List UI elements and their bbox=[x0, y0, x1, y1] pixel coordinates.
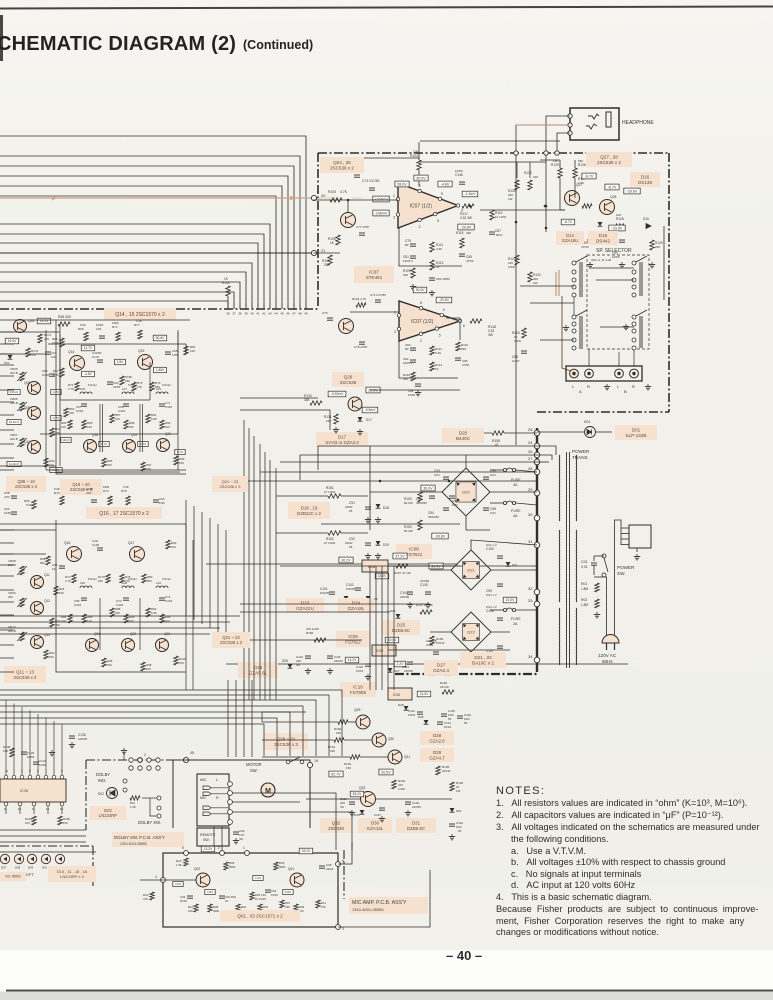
resistor R59 15K bbox=[44, 458, 48, 467]
op-amp U2 output bbox=[321, 523, 460, 525]
resistor R96 15K bbox=[102, 658, 106, 667]
PCB edge rail (thick) bbox=[536, 428, 538, 672]
svg-text:14: 14 bbox=[5, 769, 9, 773]
selector long horizontals bbox=[520, 285, 574, 287]
resistor R112 3.3K bbox=[430, 346, 434, 355]
svg-text:D09: D09 bbox=[28, 866, 34, 870]
voltage box 4.8V bbox=[82, 371, 95, 376]
node 5 micamp bbox=[184, 851, 189, 856]
transistor Q27 bbox=[565, 191, 580, 206]
diode D31 symbol bbox=[450, 808, 455, 812]
svg-text:DZB6.8C: DZB6.8C bbox=[392, 628, 410, 633]
resistor R106 1K bbox=[226, 286, 230, 296]
voltage box 19.2V q33 bbox=[37, 318, 51, 324]
svg-text:15K: 15K bbox=[49, 655, 54, 659]
svg-text:-29.8V: -29.8V bbox=[439, 298, 450, 302]
svg-text:POWER: POWER bbox=[572, 449, 590, 454]
svg-text:D18 , 19: D18 , 19 bbox=[301, 505, 318, 510]
resistor R91 6.8K bbox=[146, 414, 150, 423]
resistor R128 10K bbox=[614, 224, 624, 228]
svg-text:TRANS.: TRANS. bbox=[572, 455, 589, 460]
wires IC06 to dolby rows bbox=[0, 829, 86, 831]
svg-text:0.33 3W: 0.33 3W bbox=[460, 216, 472, 220]
svg-text:R69: R69 bbox=[78, 327, 84, 331]
svg-text:1.8M: 1.8M bbox=[581, 603, 588, 607]
ground C02 bbox=[235, 838, 237, 841]
svg-text:3W: 3W bbox=[488, 333, 493, 337]
svg-text:L09: L09 bbox=[156, 387, 161, 391]
svg-text:52.7V: 52.7V bbox=[331, 772, 341, 776]
resistor R07 33K bbox=[280, 900, 284, 908]
voltage box -29.0V bbox=[624, 188, 640, 194]
svg-text:21.0V: 21.0V bbox=[506, 598, 516, 602]
left edge wire stubs bbox=[0, 331, 14, 333]
transistor Q12 bbox=[31, 602, 44, 615]
svg-text:47: 47 bbox=[292, 312, 296, 316]
svg-text:1K: 1K bbox=[435, 367, 439, 371]
svg-text:DS442: DS442 bbox=[596, 239, 610, 244]
svg-text:25: 25 bbox=[349, 509, 353, 513]
resistor R105 1K bbox=[336, 235, 340, 245]
svg-text:30.0V: 30.0V bbox=[416, 288, 426, 292]
svg-text:L: L bbox=[216, 778, 218, 782]
voltage box -29.8V b bbox=[436, 297, 452, 303]
resistor R85 120 bbox=[82, 420, 86, 429]
svg-text:2SC536 x 2: 2SC536 x 2 bbox=[597, 160, 621, 165]
svg-text:-6.7V: -6.7V bbox=[608, 185, 617, 189]
resistor R172 470 bbox=[26, 348, 30, 357]
svg-text:33K: 33K bbox=[324, 263, 331, 267]
svg-text:Q11: Q11 bbox=[44, 573, 50, 577]
svg-text:the following conditions.: the following conditions. bbox=[511, 834, 609, 844]
wire to op-amp U2 bbox=[350, 311, 399, 313]
svg-text:3300/50: 3300/50 bbox=[428, 515, 439, 519]
LED D11 bbox=[55, 854, 64, 863]
svg-text:GZA22U: GZA22U bbox=[296, 606, 314, 611]
svg-text:LN224RP: LN224RP bbox=[99, 813, 117, 818]
svg-text:15K: 15K bbox=[59, 591, 64, 595]
node 34 bbox=[534, 657, 540, 663]
capacitor C83 10/50 bbox=[429, 277, 435, 279]
svg-text:11.3mV: 11.3mV bbox=[9, 462, 19, 466]
svg-text:10/50: 10/50 bbox=[408, 393, 416, 397]
resistor R166 22 1W bbox=[450, 782, 454, 791]
voltage box 50.6V bbox=[153, 335, 167, 341]
upper channel wires bbox=[0, 319, 190, 321]
resistor R118 0.33 3W bbox=[470, 319, 482, 323]
svg-text:4.7K: 4.7K bbox=[340, 190, 348, 194]
svg-text:/16: /16 bbox=[239, 837, 243, 841]
capacitor C72 0.018 bbox=[159, 597, 165, 599]
Q18~20 label bbox=[60, 479, 102, 495]
capacitor C66 1/50 bbox=[153, 499, 159, 501]
svg-text:Because Fisher products are: Because Fisher products are subject to c… bbox=[496, 904, 758, 914]
capacitor C99 0.01x2 bbox=[497, 583, 503, 585]
resistor R169 18K bbox=[120, 376, 124, 385]
svg-text:10K: 10K bbox=[115, 611, 120, 615]
capacitor C115 100/55 bbox=[441, 713, 447, 715]
voltage box -0.92mV bbox=[328, 391, 346, 397]
svg-text:5.8V: 5.8V bbox=[285, 890, 291, 894]
resistor R103 4.7K bbox=[330, 198, 342, 202]
svg-text:0.018: 0.018 bbox=[74, 603, 81, 607]
riser bundle A2 into dolby bbox=[227, 680, 229, 757]
svg-text:1/2W: 1/2W bbox=[514, 339, 521, 343]
transformer top wires bbox=[537, 446, 556, 455]
svg-text:R01: R01 bbox=[581, 582, 587, 586]
capacitor C102 100/35 bbox=[355, 587, 361, 589]
resistor R89 150 bbox=[124, 420, 128, 429]
node 45 bbox=[183, 757, 188, 762]
svg-text:470/: 470/ bbox=[4, 495, 10, 499]
svg-text:0.01: 0.01 bbox=[452, 503, 458, 507]
voltage box 0.7V q20 bbox=[175, 449, 185, 454]
resistor R159 10/1W bbox=[430, 636, 434, 645]
svg-text:a. Use a V.T.V.M.: a. Use a V.T.V.M. bbox=[511, 846, 586, 856]
resistor R78 3.3K bbox=[126, 496, 130, 505]
capacitor C64 10/50 bbox=[59, 565, 65, 567]
svg-text:1W: 1W bbox=[456, 789, 461, 793]
wire D01 bbox=[537, 431, 584, 433]
ground Q26 bbox=[335, 427, 337, 430]
svg-text:D16: D16 bbox=[641, 174, 650, 179]
svg-text:D31: D31 bbox=[412, 820, 421, 825]
inductor L09 bbox=[156, 392, 168, 394]
VR08 pot bbox=[20, 566, 24, 575]
wires Q32 row bbox=[306, 798, 360, 800]
svg-text:29: 29 bbox=[528, 487, 533, 492]
svg-text:120: 120 bbox=[87, 425, 92, 429]
capacitor C85 47/50 bbox=[459, 253, 465, 255]
VR10 pot bbox=[20, 632, 24, 641]
resistor R152 27 1/2W bbox=[328, 531, 341, 535]
svg-text:2SC536 x 3: 2SC536 x 3 bbox=[14, 675, 38, 680]
svg-text:13: 13 bbox=[60, 807, 64, 811]
IC08 regulator body bbox=[362, 560, 388, 572]
resistor R62 15K bbox=[50, 618, 54, 627]
wires rail to regulators bbox=[318, 445, 537, 447]
svg-text:R115: R115 bbox=[456, 231, 464, 235]
resistor R09 10K bbox=[294, 904, 298, 912]
svg-text:D08: D08 bbox=[15, 866, 21, 870]
capacitor C112 10/16 bbox=[365, 663, 371, 665]
resistor R161 15K bbox=[334, 738, 344, 742]
resistor R03 C01 bbox=[250, 892, 254, 900]
capacitor C68 0.018 bbox=[81, 597, 87, 599]
resistor R150 150 bbox=[58, 816, 62, 825]
svg-text:5.6mH: 5.6mH bbox=[88, 383, 97, 387]
svg-text:C105: C105 bbox=[420, 583, 428, 587]
svg-text:10/: 10/ bbox=[52, 567, 56, 571]
capacitor C91 2200/25 bbox=[365, 506, 371, 508]
svg-text:100/6.3: 100/6.3 bbox=[403, 259, 413, 263]
svg-text:.0047: .0047 bbox=[495, 233, 503, 237]
svg-text:3: 3 bbox=[342, 927, 344, 931]
Q32 2SD330 label bbox=[320, 818, 352, 833]
svg-text:0.22/: 0.22/ bbox=[92, 539, 98, 543]
svg-text:C76: C76 bbox=[322, 311, 328, 315]
svg-text:100: 100 bbox=[165, 619, 170, 623]
svg-text:2A: 2A bbox=[513, 622, 518, 626]
svg-text:15K: 15K bbox=[336, 731, 341, 735]
Q26 label bbox=[332, 372, 364, 387]
ground selector bankB left bbox=[565, 325, 567, 328]
svg-text:33K: 33K bbox=[461, 347, 466, 351]
resistor R123 220 1/2W bbox=[528, 180, 532, 190]
svg-text:47K: 47K bbox=[321, 905, 326, 909]
svg-text:82K: 82K bbox=[40, 561, 45, 565]
capacitor C117 220/16 bbox=[379, 807, 385, 809]
svg-text:2SC536 x 3: 2SC536 x 3 bbox=[274, 742, 298, 747]
transistor Q14 bbox=[70, 356, 85, 371]
resistor R95 15K bbox=[102, 458, 106, 467]
resistor R01 1.8M bbox=[595, 583, 599, 592]
capacitor C118 220/35 bbox=[405, 801, 411, 803]
svg-text:15K: 15K bbox=[107, 663, 112, 667]
diode D27 symbol bbox=[388, 668, 393, 672]
svg-text:9: 9 bbox=[443, 308, 445, 312]
diode D29 symbol bbox=[426, 738, 431, 742]
vertical riser bundle B bbox=[369, 566, 371, 690]
selector wires to terminals bbox=[588, 349, 590, 366]
capacitor C134 10/50 bbox=[33, 761, 39, 763]
capacitor C76 bbox=[327, 317, 333, 319]
VR09 pot bbox=[20, 598, 24, 607]
resistor R05 560K bbox=[274, 862, 278, 870]
node 26 bbox=[534, 452, 540, 458]
svg-text:Q01: Q01 bbox=[288, 867, 294, 871]
svg-text:Q15: Q15 bbox=[138, 349, 145, 353]
svg-text:GZA2.0: GZA2.0 bbox=[429, 738, 445, 743]
svg-text:0.018: 0.018 bbox=[165, 599, 172, 603]
svg-text:47/50: 47/50 bbox=[581, 245, 589, 249]
svg-text:STK461: STK461 bbox=[366, 275, 383, 280]
svg-text:BA10C x 2: BA10C x 2 bbox=[472, 661, 494, 666]
IC09 regulator body bbox=[372, 645, 396, 656]
svg-text:-0.92mV: -0.92mV bbox=[331, 392, 345, 396]
svg-text:-29.0V: -29.0V bbox=[627, 189, 638, 193]
resistor R151 27 1/2W bbox=[328, 494, 341, 498]
Q08~10 label bbox=[6, 476, 46, 492]
svg-text:-4.8V: -4.8V bbox=[84, 372, 92, 376]
svg-text:L05: L05 bbox=[80, 387, 85, 391]
D20 B440C label bbox=[442, 428, 484, 443]
svg-text:Q28: Q28 bbox=[610, 195, 617, 199]
resistor R111 3.3K bbox=[430, 242, 434, 252]
svg-text:– 40 –: – 40 – bbox=[446, 948, 482, 963]
svg-text:C01: C01 bbox=[581, 560, 588, 564]
IC10 regulator body bbox=[388, 688, 412, 700]
svg-text:60Hz: 60Hz bbox=[602, 659, 613, 664]
capacitor C116 220/16 bbox=[349, 801, 355, 803]
capacitor C135 100/25 bbox=[69, 735, 75, 737]
svg-text:Q23: Q23 bbox=[164, 632, 170, 636]
svg-text:56K: 56K bbox=[578, 159, 583, 163]
svg-text:DZB22C x 2: DZB22C x 2 bbox=[297, 511, 321, 516]
voltage box 11.7V bbox=[81, 345, 95, 351]
svg-text:4.8V: 4.8V bbox=[207, 890, 213, 894]
resistor R61 15K bbox=[50, 428, 54, 437]
svg-text:SLP-132B: SLP-132B bbox=[626, 433, 647, 438]
resistor R122 330 1W bbox=[528, 272, 532, 282]
capacitor C114 10/16 bbox=[417, 711, 423, 713]
svg-text:12: 12 bbox=[46, 807, 50, 811]
svg-text:1310-4001-05950: 1310-4001-05950 bbox=[352, 907, 384, 912]
selector switch box (dashed) bbox=[587, 255, 649, 349]
transistor Q10 bbox=[28, 441, 41, 454]
resistor R170 18K bbox=[106, 574, 110, 583]
capacitor C82 100/6.3 bbox=[410, 359, 416, 361]
svg-text:1.8K: 1.8K bbox=[578, 181, 584, 185]
svg-text:/16: /16 bbox=[340, 805, 344, 809]
svg-text:R167 22 1W: R167 22 1W bbox=[416, 603, 433, 607]
svg-text:53.2V: 53.2V bbox=[353, 792, 363, 796]
svg-text:220/16: 220/16 bbox=[334, 659, 343, 663]
svg-text:D15: D15 bbox=[599, 233, 608, 238]
resistor R75 27K bbox=[132, 382, 136, 391]
ground dolby top bbox=[123, 748, 125, 751]
diode D14 bbox=[566, 232, 571, 236]
svg-text:6.8K: 6.8K bbox=[151, 417, 157, 421]
svg-text:-29.8V: -29.8V bbox=[435, 534, 446, 538]
svg-text:R01: R01 bbox=[263, 905, 269, 909]
power switch S1 box bbox=[629, 525, 651, 548]
svg-text:1/4W: 1/4W bbox=[398, 787, 405, 791]
svg-text:5.6mH: 5.6mH bbox=[88, 577, 97, 581]
capacitor C80 8P bbox=[410, 347, 416, 349]
voltage box -29.8V bbox=[458, 224, 474, 230]
svg-text:A: A bbox=[579, 389, 582, 394]
svg-text:R: R bbox=[216, 796, 219, 800]
D28 GZA2.0 label bbox=[420, 731, 454, 745]
svg-text:D30: D30 bbox=[354, 813, 360, 817]
capacitor C75 bbox=[354, 174, 360, 176]
transistor Q16 bbox=[67, 547, 82, 562]
diode D01 circle bbox=[585, 427, 596, 438]
transistor Q02 bbox=[196, 873, 210, 887]
capacitor C86 47/50 bbox=[455, 357, 461, 359]
svg-text:10/1W: 10/1W bbox=[436, 641, 445, 645]
svg-text:5.6K: 5.6K bbox=[80, 323, 86, 327]
svg-text:D27: D27 bbox=[394, 669, 400, 673]
D17 D20 junction wires bbox=[370, 491, 420, 493]
transistor Q26 bbox=[348, 397, 362, 411]
svg-text:2: 2 bbox=[419, 225, 421, 229]
diode D19 bbox=[376, 541, 381, 545]
svg-text:4.4V: 4.4V bbox=[255, 876, 261, 880]
svg-text:D16: D16 bbox=[643, 217, 649, 221]
svg-text:R157 47 1W: R157 47 1W bbox=[394, 571, 411, 575]
transistor Q09 bbox=[28, 407, 41, 420]
transistor Q20 bbox=[157, 439, 170, 452]
resistor R77 3.3K bbox=[138, 330, 142, 339]
MIC AMP PCB ASSY label bbox=[349, 897, 428, 914]
voltage box -1.3mV bbox=[462, 191, 478, 197]
transistor Q24 bbox=[341, 213, 356, 228]
ground selector bankB right bbox=[625, 324, 627, 327]
resistor R102 100 bbox=[417, 160, 421, 170]
svg-text:IC09: IC09 bbox=[348, 634, 358, 639]
svg-text:IND.: IND. bbox=[98, 778, 106, 783]
capacitor C02 0.47/16 bbox=[233, 831, 239, 833]
svg-text:L08: L08 bbox=[122, 581, 127, 585]
svg-text:560: 560 bbox=[147, 579, 152, 583]
diode D21 small bbox=[506, 562, 511, 566]
svg-text:150: 150 bbox=[129, 425, 134, 429]
svg-text:10/16: 10/16 bbox=[408, 713, 416, 717]
svg-text:180K: 180K bbox=[112, 321, 119, 325]
svg-text:3.3K: 3.3K bbox=[123, 485, 129, 489]
resistor R88 10K bbox=[110, 608, 114, 617]
resistor R55 330 bbox=[58, 322, 70, 326]
voltage box 2.2V bbox=[394, 661, 405, 667]
Q24 25 label bbox=[320, 157, 364, 173]
node 27 bbox=[534, 459, 540, 465]
svg-text:C73 0.47/50: C73 0.47/50 bbox=[362, 179, 380, 183]
transistor Q32 bbox=[361, 792, 376, 807]
voltage box 0.7V q18 bbox=[99, 441, 109, 446]
resistor R65 220K bbox=[60, 338, 64, 347]
transistor Q01 bbox=[290, 873, 304, 887]
PCB boundary main amp (dash-dot) bbox=[318, 152, 669, 154]
svg-text:FUSE: FUSE bbox=[511, 509, 521, 513]
Q16 17 label bbox=[86, 507, 162, 519]
channel1 enclosure lines bbox=[56, 320, 186, 474]
voltage box -4.8V bbox=[438, 181, 452, 187]
svg-text:22/16: 22/16 bbox=[326, 867, 334, 871]
resistor R98 15K bbox=[141, 662, 145, 671]
capacitor C71 0.018 bbox=[159, 403, 165, 405]
voltage box 8.0V bbox=[413, 287, 427, 293]
diode D23 symbol bbox=[344, 596, 349, 600]
transistor Q11 bbox=[31, 576, 44, 589]
svg-text:Q12: Q12 bbox=[44, 599, 50, 603]
svg-text:0.22/50: 0.22/50 bbox=[92, 351, 102, 355]
D02 LN224RP label bbox=[90, 806, 126, 820]
svg-text:560K: 560K bbox=[229, 865, 236, 869]
svg-text:15K: 15K bbox=[69, 411, 74, 415]
wires headphone to amp bbox=[546, 116, 570, 153]
D27 GZA2.4 label bbox=[424, 660, 458, 675]
MIC connector box bbox=[197, 774, 229, 826]
feedback network under op-amp U2 bbox=[399, 341, 458, 378]
svg-text:Q14 , 15 2SC1570 x 2: Q14 , 15 2SC1570 x 2 bbox=[115, 312, 165, 318]
dolby top pins bbox=[129, 766, 133, 770]
svg-text:+105mV: +105mV bbox=[374, 197, 388, 201]
resistor R01 1.5K dolby bbox=[130, 796, 140, 800]
svg-text:220/50: 220/50 bbox=[400, 595, 410, 599]
voltage box 4.8V m bbox=[205, 889, 215, 894]
svg-text:20K-B: 20K-B bbox=[10, 437, 18, 441]
node 21 wire bbox=[0, 252, 314, 254]
resistor R63 15K bbox=[64, 408, 68, 417]
voltage box -6.7V c bbox=[561, 219, 575, 225]
dolby pcb boundary bbox=[86, 759, 310, 761]
svg-text:D25: D25 bbox=[390, 609, 396, 613]
capacitor C67 0.018 bbox=[81, 403, 87, 405]
svg-text:150: 150 bbox=[63, 821, 68, 825]
svg-text:20K: 20K bbox=[8, 595, 13, 599]
mic box edge contacts bbox=[228, 782, 233, 787]
svg-text:27 1/2W: 27 1/2W bbox=[324, 490, 335, 494]
svg-text:R73: R73 bbox=[112, 325, 118, 329]
transistor Q22 bbox=[122, 639, 135, 652]
Q21~23 label b bbox=[212, 632, 250, 648]
capacitor C97 0.01 bbox=[449, 495, 455, 497]
svg-text:10/16: 10/16 bbox=[444, 725, 451, 729]
ground speaker mid bbox=[606, 384, 608, 387]
voltage box 0V a bbox=[17, 477, 24, 482]
